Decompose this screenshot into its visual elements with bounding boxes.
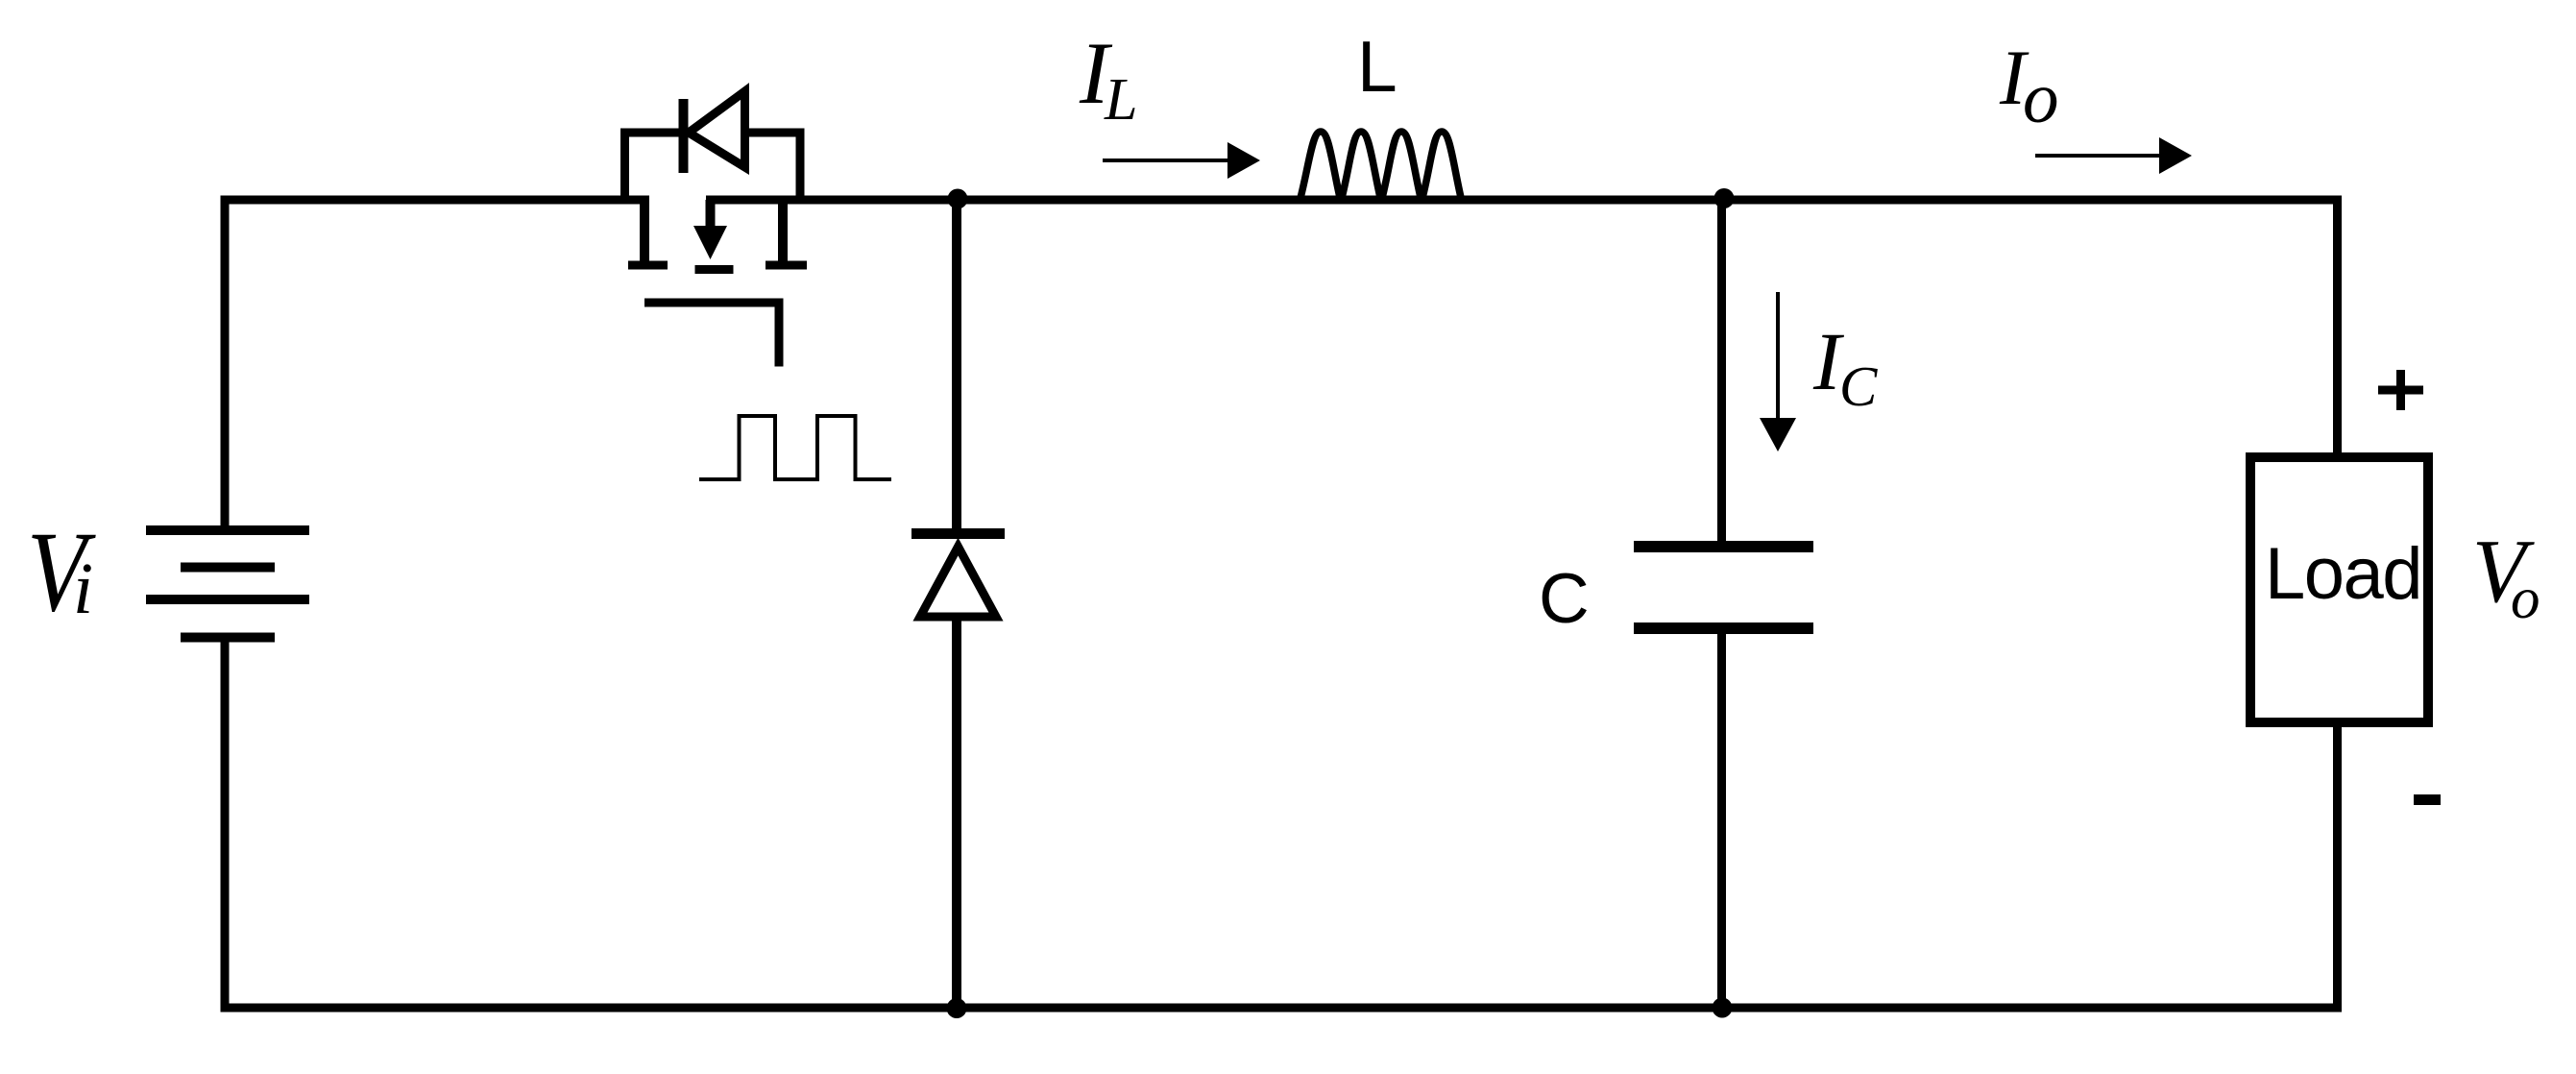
arrow IL xyxy=(1103,142,1260,179)
wire bottom xyxy=(221,1004,2343,1013)
battery Vi plate long lower xyxy=(146,595,309,604)
load box xyxy=(2250,457,2428,722)
MOSFET body diode right leg xyxy=(796,129,805,205)
label Io xyxy=(1999,34,2059,138)
MOSFET switch drain bar xyxy=(766,261,807,270)
arrow Io xyxy=(2035,137,2192,174)
inductor L xyxy=(1300,132,1462,202)
wire diode branch lower xyxy=(952,616,961,1008)
svg-text:o: o xyxy=(2023,59,2059,138)
label Vi xyxy=(27,507,96,635)
capacitor C bottom plate xyxy=(1634,622,1813,634)
node B junction dot top of capacitor xyxy=(1714,188,1735,208)
svg-text:o: o xyxy=(2511,567,2540,631)
svg-text:i: i xyxy=(73,549,93,629)
PWM gate waveform xyxy=(699,416,891,479)
MOSFET body diode left leg xyxy=(620,129,629,204)
minus sign xyxy=(2414,794,2441,805)
MOSFET body diode triangle xyxy=(689,91,745,167)
wire diode branch upper xyxy=(952,199,961,534)
MOSFET switch source bar xyxy=(628,261,668,270)
MOSFET switch body arrow shaft xyxy=(706,200,716,232)
wire right upper xyxy=(2333,196,2342,458)
svg-text:C: C xyxy=(1539,560,1590,638)
MOSFET body diode left horizontal xyxy=(620,129,683,137)
wire left upper xyxy=(221,196,230,531)
plus sign xyxy=(2378,370,2423,410)
wire top-left segment xyxy=(221,196,650,205)
label IL xyxy=(1079,24,1137,133)
node junction dot bottom of diode xyxy=(947,998,967,1018)
MOSFET switch gate line xyxy=(644,303,779,367)
MOSFET body diode right horizontal xyxy=(745,129,805,137)
battery Vi plate short bottom xyxy=(181,633,275,643)
svg-text:C: C xyxy=(1839,354,1878,418)
wire left lower xyxy=(221,637,230,1013)
svg-text:L: L xyxy=(1104,67,1137,133)
label C xyxy=(1539,560,1590,638)
svg-text:Load: Load xyxy=(2265,533,2421,615)
wire right lower xyxy=(2333,722,2342,1013)
label IC xyxy=(1812,315,1878,418)
label L xyxy=(1357,26,1397,107)
wire capacitor branch upper xyxy=(1717,198,1726,548)
battery Vi plate short upper xyxy=(181,563,275,573)
battery Vi plate long top xyxy=(146,525,309,535)
MOSFET switch channel bar xyxy=(695,265,734,274)
capacitor C top plate xyxy=(1634,541,1813,552)
MOSFET switch body arrow head xyxy=(693,226,727,259)
MOSFET switch source lead xyxy=(640,200,649,265)
arrow IC xyxy=(1760,292,1796,452)
svg-text:L: L xyxy=(1357,26,1397,107)
label Load xyxy=(2265,533,2421,615)
freewheeling diode triangle xyxy=(920,547,996,617)
wire capacitor branch lower xyxy=(1717,628,1726,1008)
wire top-right segment xyxy=(706,196,2342,205)
node A junction dot top of diode xyxy=(948,189,968,209)
freewheeling diode cathode bar xyxy=(911,528,1005,539)
node junction dot bottom of capacitor xyxy=(1713,998,1733,1018)
MOSFET switch drain lead xyxy=(778,200,788,265)
label Vo xyxy=(2472,522,2540,631)
MOSFET body diode cathode bar xyxy=(679,99,689,173)
